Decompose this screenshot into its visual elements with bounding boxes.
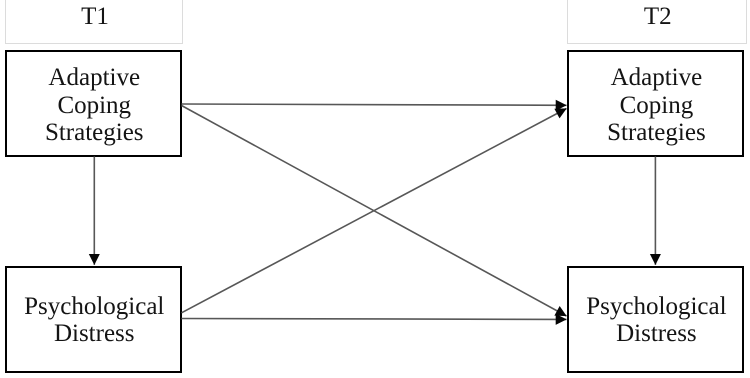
node: Adaptive Coping Strategies (T2) — [567, 50, 745, 157]
node: Adaptive Coping Strategies (T1) — [5, 50, 183, 157]
arrow: PD T1 -> ACS T2 (diagonal up) — [182, 109, 567, 313]
arrow: ACS T2 -> PD T2 (vertical right) — [654, 157, 656, 265]
node T1 header box — [5, 0, 183, 44]
arrow: ACS T1 -> ACS T2 (horizontal top) — [182, 104, 567, 105]
node: Psychological Distress (T2) — [567, 266, 745, 373]
arrow: ACS T1 -> PD T1 (vertical left) — [93, 157, 95, 265]
node: Psychological Distress (T1) — [5, 266, 183, 373]
arrow: PD T1 -> PD T2 (horizontal bottom) — [182, 318, 567, 321]
arrow: ACS T1 -> PD T2 (diagonal down) — [182, 106, 567, 317]
node T2 header box — [567, 0, 748, 44]
